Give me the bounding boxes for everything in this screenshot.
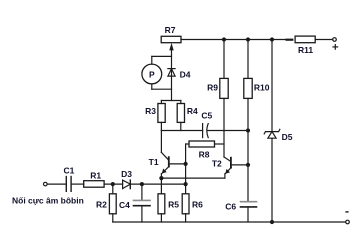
svg-text:R9: R9 xyxy=(207,82,218,92)
svg-text:R4: R4 xyxy=(187,106,198,116)
svg-text:P: P xyxy=(149,69,155,79)
svg-text:R1: R1 xyxy=(90,170,101,180)
svg-text:R3: R3 xyxy=(145,106,156,116)
svg-text:R7: R7 xyxy=(165,25,176,35)
svg-text:R5: R5 xyxy=(168,200,179,210)
svg-text:R10: R10 xyxy=(254,82,270,92)
svg-text:T2: T2 xyxy=(212,159,222,169)
svg-text:C4: C4 xyxy=(119,200,130,210)
svg-text:R11: R11 xyxy=(298,45,313,55)
svg-text:D3: D3 xyxy=(121,169,132,179)
svg-text:R8: R8 xyxy=(199,150,210,160)
svg-text:Nối cực âm bôbin: Nối cực âm bôbin xyxy=(12,196,84,206)
svg-text:T1: T1 xyxy=(149,157,159,167)
svg-text:C5: C5 xyxy=(201,110,212,120)
svg-text:D5: D5 xyxy=(282,132,293,142)
svg-text:R2: R2 xyxy=(96,200,107,210)
svg-text:C1: C1 xyxy=(63,165,74,175)
svg-text:D4: D4 xyxy=(180,69,191,79)
svg-text:C6: C6 xyxy=(225,201,236,211)
svg-text:R6: R6 xyxy=(192,200,203,210)
